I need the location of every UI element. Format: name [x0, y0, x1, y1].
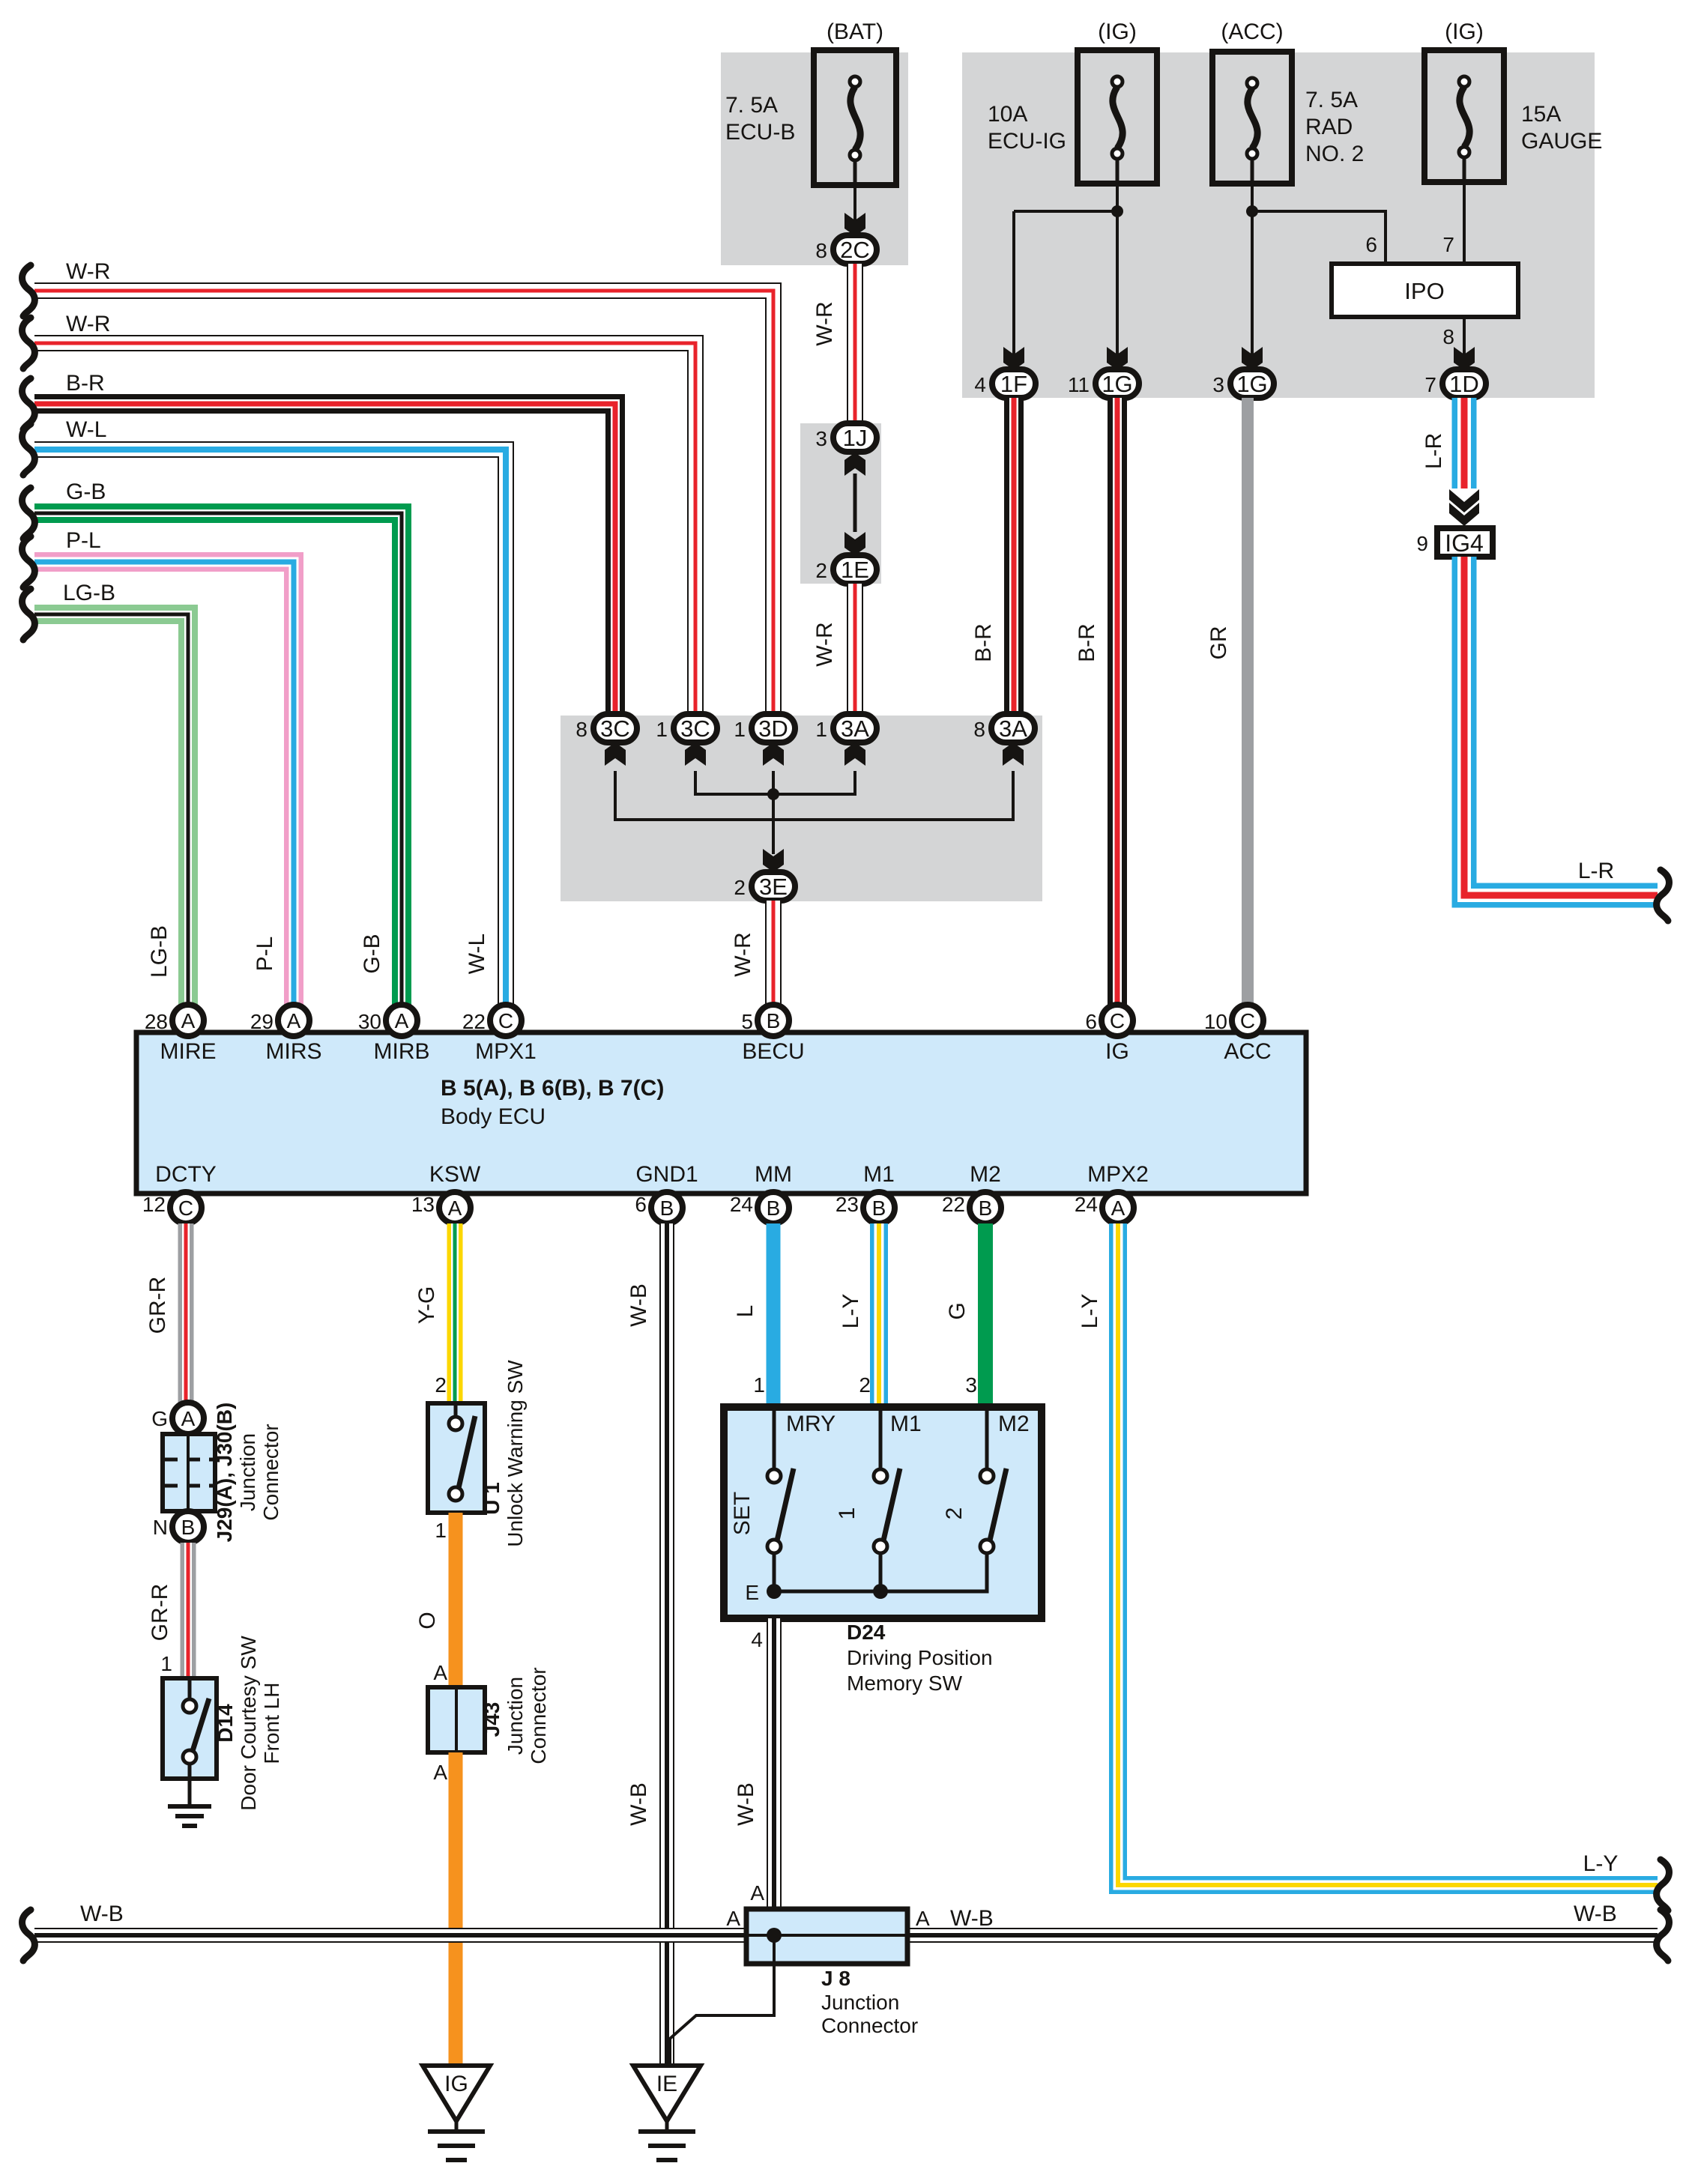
- svg-text:3A: 3A: [999, 716, 1027, 742]
- svg-text:(BAT): (BAT): [827, 19, 883, 44]
- svg-text:B: B: [767, 1009, 781, 1032]
- junction dot J8: [767, 1928, 782, 1943]
- wire W-R 2C to 1J: [847, 264, 863, 424]
- svg-text:22: 22: [462, 1010, 486, 1033]
- svg-text:10A: 10A: [988, 102, 1027, 127]
- fuse ECU-B 7.5A: [814, 50, 896, 185]
- svg-text:1: 1: [656, 718, 668, 741]
- junction dot E: [767, 1584, 782, 1599]
- ground below D14: [168, 1806, 211, 1826]
- curl W-R left end: [22, 318, 35, 369]
- svg-text:G: G: [945, 1302, 970, 1319]
- switch D14 Door Courtesy SW: [163, 1678, 217, 1779]
- wire GR-R DCTY to J29: [178, 1223, 194, 1403]
- pin MIRE: [172, 1005, 204, 1036]
- svg-text:7: 7: [1442, 233, 1454, 256]
- wire L MM to D24: [767, 1223, 781, 1407]
- svg-text:W-L: W-L: [66, 417, 106, 442]
- connector 3E: [752, 872, 795, 901]
- switch MRY: [773, 1407, 776, 1469]
- junction dot M1 bottom: [873, 1584, 888, 1599]
- pin IG: [1102, 1005, 1133, 1036]
- svg-text:3: 3: [965, 1373, 977, 1397]
- fuse RAD NO.2 7.5A: [1212, 52, 1292, 184]
- wire W-B rail right segment: [906, 1928, 1658, 1943]
- svg-text:L-Y: L-Y: [839, 1294, 863, 1329]
- svg-text:1D: 1D: [1449, 371, 1479, 397]
- svg-text:22: 22: [942, 1193, 965, 1216]
- svg-text:MM: MM: [755, 1162, 792, 1187]
- wire O U1 to J43: [449, 1513, 463, 1687]
- connector 1J: [833, 423, 877, 452]
- pin MIRS: [278, 1005, 309, 1036]
- curl W-B left end: [22, 1910, 35, 1961]
- power panel (BAT) background: [721, 52, 908, 265]
- svg-text:2C: 2C: [840, 237, 870, 263]
- svg-text:L: L: [733, 1305, 758, 1318]
- wire W-R 3E to BECU: [765, 901, 782, 1008]
- wire ACC fuse to 1G with branch to IPO pin 6: [1251, 184, 1254, 367]
- svg-text:M2: M2: [998, 1412, 1030, 1436]
- wire IPO pin 8 to 1D: [1463, 317, 1466, 367]
- ECU B5/B6/B7 Body ECU: [136, 1032, 1306, 1194]
- svg-text:W-B: W-B: [734, 1782, 758, 1826]
- pin MPX1: [490, 1005, 522, 1036]
- svg-text:L-R: L-R: [1421, 433, 1446, 469]
- arrow into 2C: [844, 213, 865, 236]
- pin B of J29: [172, 1511, 204, 1543]
- svg-text:B-R: B-R: [66, 371, 105, 396]
- wire W-B rail left segment: [34, 1928, 748, 1943]
- connector 3D (1): [752, 714, 795, 742]
- wire L-Y MPX2 to right edge: [1118, 1223, 1658, 1885]
- connector 3C (1): [674, 714, 717, 742]
- svg-text:A: A: [1111, 1197, 1125, 1220]
- svg-text:10: 10: [1204, 1010, 1227, 1033]
- bus E inside D24: [774, 1553, 987, 1591]
- svg-text:W-B: W-B: [80, 1902, 124, 1926]
- svg-text:A: A: [433, 1761, 447, 1784]
- wire L-R IG4 to right edge: [1464, 557, 1658, 895]
- wire W-R to 3C: [34, 343, 695, 713]
- wire Y-G KSW to U1: [447, 1223, 463, 1403]
- svg-text:12: 12: [142, 1193, 166, 1216]
- svg-text:Memory SW: Memory SW: [847, 1672, 963, 1695]
- wire W-L to MPX1: [34, 450, 506, 1008]
- connector 3A (8): [991, 714, 1035, 742]
- svg-text:A: A: [916, 1907, 930, 1930]
- connector panel 1J/1E background: [800, 423, 881, 584]
- svg-text:A: A: [287, 1009, 301, 1032]
- wire fuse ECU-B to 2C: [853, 185, 856, 237]
- wire J8 to IE ground lead: [670, 1935, 774, 2066]
- svg-text:MRY: MRY: [786, 1412, 836, 1436]
- svg-text:J 8: J 8: [821, 1967, 850, 1990]
- svg-text:7. 5A: 7. 5A: [1305, 88, 1358, 112]
- svg-text:U 1: U 1: [480, 1482, 504, 1515]
- svg-text:B: B: [660, 1197, 674, 1220]
- connector 2C: [833, 235, 877, 264]
- svg-text:8: 8: [973, 718, 985, 741]
- svg-text:W-R: W-R: [812, 622, 837, 666]
- arrow into 1G (ACC): [1242, 347, 1263, 370]
- connector 3A (1): [833, 714, 877, 742]
- svg-text:ACC: ACC: [1224, 1039, 1271, 1064]
- wire G-B to MIRB: [34, 513, 402, 1008]
- arrow pair 1J to 1E: [844, 453, 865, 476]
- svg-text:W-L: W-L: [465, 934, 489, 974]
- wire G M2 to D24: [978, 1223, 993, 1407]
- curl L-Y right end: [1657, 1860, 1670, 1911]
- bus upper: 3C-3D-3A: [695, 771, 855, 794]
- pin BECU: [758, 1005, 789, 1036]
- svg-text:5: 5: [741, 1010, 753, 1033]
- svg-text:2: 2: [815, 559, 827, 582]
- ground IE: [633, 2066, 701, 2121]
- svg-text:MPX2: MPX2: [1087, 1162, 1149, 1187]
- svg-text:(ACC): (ACC): [1221, 19, 1283, 44]
- curl W-R left end: [22, 265, 35, 316]
- curl L-R right end: [1657, 870, 1670, 921]
- svg-text:GR-R: GR-R: [145, 1277, 170, 1334]
- svg-text:B-R: B-R: [971, 623, 996, 662]
- svg-text:D14: D14: [214, 1704, 237, 1743]
- svg-text:2: 2: [435, 1373, 447, 1397]
- connector 1E: [833, 555, 877, 584]
- svg-text:BECU: BECU: [742, 1039, 804, 1064]
- svg-text:SET: SET: [730, 1492, 755, 1535]
- svg-text:G-B: G-B: [66, 480, 106, 504]
- svg-text:8: 8: [1442, 325, 1454, 348]
- svg-text:D24: D24: [847, 1621, 886, 1644]
- pin ACC: [1232, 1005, 1263, 1036]
- svg-text:6: 6: [1365, 233, 1377, 256]
- svg-text:B: B: [872, 1197, 886, 1220]
- switch U1 Unlock Warning SW: [428, 1403, 485, 1513]
- svg-text:C: C: [178, 1197, 193, 1220]
- svg-text:15A: 15A: [1521, 102, 1561, 127]
- svg-text:Junction: Junction: [236, 1433, 259, 1511]
- connector panel 3C/3D/3A background: [561, 716, 1042, 901]
- svg-text:B-R: B-R: [1075, 623, 1099, 662]
- curl B-R left end: [22, 378, 35, 429]
- svg-text:3E: 3E: [759, 874, 788, 900]
- svg-text:29: 29: [250, 1010, 274, 1033]
- svg-text:NO. 2: NO. 2: [1305, 142, 1364, 166]
- svg-text:C: C: [1110, 1009, 1125, 1032]
- svg-text:2: 2: [859, 1373, 871, 1397]
- svg-text:1F: 1F: [1000, 371, 1027, 397]
- wire GAUGE fuse to IPO pin 7: [1463, 182, 1466, 262]
- wire LG-B to MIRE: [34, 614, 188, 1008]
- svg-text:W-B: W-B: [1574, 1902, 1617, 1926]
- svg-text:1G: 1G: [1236, 371, 1267, 397]
- wire L-Y M1 to D24: [870, 1223, 888, 1407]
- svg-text:1G: 1G: [1102, 371, 1132, 397]
- bus lower: 3C(8)-3A(8): [615, 771, 1013, 820]
- ground IG: [423, 2066, 490, 2121]
- svg-text:1J: 1J: [843, 425, 868, 451]
- svg-text:M1: M1: [890, 1412, 922, 1436]
- curl LG-B left end: [22, 589, 35, 640]
- svg-text:N: N: [153, 1516, 168, 1539]
- wire L-R 1D to IG4: [1452, 398, 1477, 488]
- svg-text:1: 1: [160, 1652, 172, 1675]
- svg-text:MIRE: MIRE: [160, 1039, 217, 1064]
- box IG4: [1437, 528, 1493, 557]
- svg-text:MIRB: MIRB: [374, 1039, 430, 1064]
- svg-text:4: 4: [751, 1628, 763, 1651]
- connector 1G: [1096, 369, 1139, 398]
- svg-text:28: 28: [145, 1010, 168, 1033]
- arrows into connector row: [605, 742, 626, 766]
- svg-text:Body ECU: Body ECU: [441, 1104, 546, 1129]
- svg-text:3A: 3A: [841, 716, 869, 742]
- svg-text:A: A: [395, 1009, 409, 1032]
- fuse GAUGE 15A: [1424, 50, 1504, 182]
- wire W-R 1E to 3A: [847, 584, 863, 713]
- curl G-B left end: [22, 488, 35, 539]
- svg-text:ECU-IG: ECU-IG: [988, 129, 1066, 154]
- switch M2: [985, 1407, 989, 1469]
- svg-text:LG-B: LG-B: [63, 581, 115, 605]
- svg-text:6: 6: [635, 1193, 647, 1216]
- switch M1: [879, 1407, 883, 1469]
- svg-text:A: A: [750, 1881, 764, 1905]
- svg-text:1: 1: [835, 1507, 859, 1520]
- svg-text:7: 7: [1424, 373, 1436, 396]
- curl W-B right end: [1657, 1910, 1670, 1961]
- svg-text:A: A: [726, 1907, 740, 1930]
- svg-text:Connector: Connector: [527, 1667, 550, 1764]
- svg-text:RAD: RAD: [1305, 115, 1353, 139]
- svg-text:Junction: Junction: [504, 1677, 527, 1755]
- svg-text:M1: M1: [863, 1162, 895, 1187]
- svg-text:B 5(A), B 6(B), B 7(C): B 5(A), B 6(B), B 7(C): [441, 1076, 664, 1101]
- connector 1G ACC: [1230, 369, 1274, 398]
- svg-text:A: A: [181, 1407, 196, 1430]
- svg-text:B: B: [181, 1516, 196, 1539]
- svg-text:Connector: Connector: [259, 1424, 282, 1520]
- wire B-R to 3C: [34, 404, 615, 713]
- svg-text:P-L: P-L: [253, 937, 277, 972]
- svg-text:7. 5A: 7. 5A: [725, 93, 778, 118]
- svg-text:Junction: Junction: [821, 1991, 899, 2014]
- svg-text:3C: 3C: [600, 716, 630, 742]
- svg-text:J43: J43: [480, 1702, 504, 1737]
- svg-text:M2: M2: [970, 1162, 1001, 1187]
- wire GR 1G to ECU ACC: [1242, 398, 1254, 1008]
- connector 1F: [992, 369, 1036, 398]
- svg-text:W-B: W-B: [626, 1283, 651, 1327]
- svg-text:E: E: [745, 1581, 759, 1604]
- svg-text:MIRS: MIRS: [266, 1039, 322, 1064]
- connector 3C (8): [593, 714, 637, 742]
- svg-text:24: 24: [1075, 1193, 1098, 1216]
- wire ECU-IG fuse to 1G with branch to 1F: [1116, 184, 1119, 367]
- svg-text:23: 23: [836, 1193, 859, 1216]
- svg-text:L-Y: L-Y: [1583, 1851, 1619, 1876]
- svg-text:8: 8: [815, 239, 827, 262]
- svg-text:G: G: [151, 1407, 168, 1430]
- junction connector J8: [746, 1909, 907, 1964]
- svg-text:9: 9: [1416, 532, 1428, 555]
- svg-text:IE: IE: [656, 2072, 677, 2096]
- box IPO: [1332, 264, 1518, 317]
- arrow into 1D: [1454, 347, 1475, 370]
- svg-text:W-B: W-B: [950, 1906, 994, 1931]
- svg-text:(IG): (IG): [1098, 19, 1137, 44]
- svg-text:GAUGE: GAUGE: [1521, 129, 1602, 154]
- wire O J43 to IG ground: [449, 1752, 463, 2066]
- svg-text:2: 2: [942, 1507, 967, 1520]
- svg-text:A: A: [433, 1661, 447, 1684]
- switch D24 Driving Position Memory SW: [724, 1407, 1042, 1618]
- svg-text:G-B: G-B: [360, 934, 384, 973]
- svg-text:(IG): (IG): [1445, 19, 1484, 44]
- svg-text:P-L: P-L: [66, 528, 101, 553]
- svg-text:1: 1: [815, 718, 827, 741]
- curl P-L left end: [22, 536, 35, 587]
- svg-text:Y-G: Y-G: [414, 1286, 439, 1325]
- svg-text:13: 13: [411, 1193, 435, 1216]
- svg-text:C: C: [498, 1009, 513, 1032]
- svg-text:A: A: [448, 1197, 462, 1220]
- wire W-B D24 E to J8: [767, 1618, 782, 1926]
- svg-text:LG-B: LG-B: [147, 925, 172, 978]
- power panel (IG)/(ACC)/(IG) background: [962, 52, 1595, 398]
- wire W-B GND1 to IE ground: [659, 1223, 674, 2066]
- svg-text:O: O: [415, 1612, 440, 1629]
- svg-text:11: 11: [1068, 373, 1090, 396]
- svg-text:8: 8: [575, 718, 587, 741]
- svg-text:W-B: W-B: [626, 1782, 651, 1826]
- svg-text:Door Courtesy SW: Door Courtesy SW: [237, 1636, 260, 1811]
- junction dot bus: [767, 788, 779, 800]
- svg-text:1: 1: [734, 718, 746, 741]
- svg-text:W-R: W-R: [731, 932, 755, 976]
- svg-text:Connector: Connector: [821, 2014, 918, 2037]
- svg-text:1E: 1E: [841, 557, 869, 583]
- junction dot ACC branch: [1246, 205, 1258, 217]
- wire GR-R J29 to D14: [181, 1543, 196, 1678]
- svg-text:KSW: KSW: [429, 1162, 481, 1187]
- wire B-R 1F to 3A: [1004, 398, 1024, 713]
- svg-text:3D: 3D: [758, 716, 788, 742]
- fuse ECU-IG 10A: [1078, 50, 1157, 184]
- junction connector J43: [428, 1687, 485, 1752]
- svg-text:C: C: [1240, 1009, 1255, 1032]
- svg-text:30: 30: [358, 1010, 381, 1033]
- svg-text:W-R: W-R: [66, 312, 110, 336]
- svg-text:L-R: L-R: [1578, 859, 1614, 883]
- arrow into 1G: [1107, 347, 1128, 370]
- svg-text:GND1: GND1: [635, 1162, 698, 1187]
- svg-text:B: B: [767, 1197, 781, 1220]
- svg-text:A: A: [181, 1009, 196, 1032]
- svg-text:3C: 3C: [680, 716, 710, 742]
- svg-text:DCTY: DCTY: [155, 1162, 217, 1187]
- arrow into 1F: [1003, 347, 1024, 370]
- svg-text:W-R: W-R: [812, 301, 837, 345]
- svg-text:J29(A), J30(B): J29(A), J30(B): [213, 1403, 236, 1543]
- wire B-R 1G to ECU IG: [1108, 398, 1127, 1008]
- svg-text:Front LH: Front LH: [260, 1683, 283, 1764]
- svg-text:1: 1: [753, 1373, 765, 1397]
- svg-text:L-Y: L-Y: [1078, 1294, 1102, 1329]
- junction connector J29/J30: [163, 1434, 215, 1511]
- svg-text:B: B: [979, 1197, 993, 1220]
- double chevron into IG4: [1449, 489, 1479, 512]
- svg-text:GR-R: GR-R: [148, 1584, 172, 1642]
- connector 1D: [1442, 369, 1486, 398]
- junction dot ECU-IG branch: [1111, 205, 1123, 217]
- svg-text:ECU-B: ECU-B: [725, 120, 795, 145]
- svg-text:MPX1: MPX1: [475, 1039, 537, 1064]
- wire P-L to MIRS: [34, 562, 294, 1008]
- arrow into 3E: [763, 849, 784, 872]
- wire W-R to 3D: [34, 291, 773, 713]
- svg-text:Unlock Warning SW: Unlock Warning SW: [504, 1360, 527, 1547]
- svg-text:W-R: W-R: [66, 259, 110, 284]
- svg-text:IG4: IG4: [1445, 530, 1484, 557]
- svg-text:IPO: IPO: [1404, 278, 1444, 304]
- svg-text:3: 3: [815, 427, 827, 450]
- curl W-L left end: [22, 424, 35, 475]
- svg-text:IG: IG: [444, 2072, 468, 2096]
- svg-text:1: 1: [435, 1519, 447, 1542]
- pin A of J29: [172, 1403, 204, 1434]
- svg-text:24: 24: [730, 1193, 753, 1216]
- svg-text:6: 6: [1085, 1010, 1097, 1033]
- svg-text:IG: IG: [1105, 1039, 1129, 1064]
- wire bus to 3E: [772, 794, 775, 854]
- svg-text:Driving Position: Driving Position: [847, 1646, 993, 1669]
- pin MIRB: [386, 1005, 417, 1036]
- svg-text:GR: GR: [1206, 626, 1231, 660]
- svg-text:4: 4: [974, 373, 986, 396]
- svg-text:3: 3: [1212, 373, 1224, 396]
- svg-text:2: 2: [734, 876, 746, 899]
